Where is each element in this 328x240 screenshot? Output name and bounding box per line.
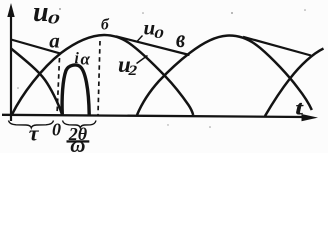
- svg-text:τ: τ: [29, 120, 40, 145]
- svg-text:ω: ω: [70, 133, 85, 153]
- svg-text:0: 0: [52, 119, 61, 139]
- svg-text:2: 2: [127, 63, 137, 78]
- svg-text:a: a: [49, 29, 60, 53]
- svg-text:u: u: [33, 0, 49, 28]
- svg-text:0: 0: [154, 26, 164, 41]
- svg-text:б: б: [101, 17, 110, 34]
- svg-text:α: α: [81, 49, 91, 68]
- svg-text:i: i: [75, 50, 80, 67]
- svg-text:в: в: [176, 25, 185, 52]
- svg-text:0: 0: [48, 12, 60, 27]
